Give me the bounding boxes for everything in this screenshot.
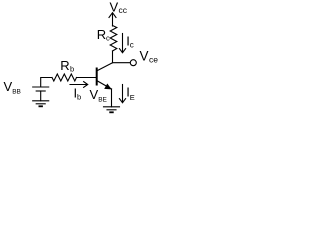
label Vbb [4,79,21,96]
battery VBB top plate [33,86,49,88]
svg-text:ce: ce [149,55,158,65]
svg-text:BB: BB [12,89,21,96]
svg-text:b: b [70,64,74,73]
svg-text:V: V [4,79,13,94]
label Rb [60,58,74,73]
current arrow Ib [70,82,88,88]
node Vce terminal circle [130,60,136,66]
battery VBB bottom plate [36,90,45,92]
svg-text:b: b [77,93,81,102]
label Vbe [90,87,108,104]
current arrow IE [119,85,125,103]
transistor Q1 base bar [96,69,98,85]
label Ib [74,86,82,102]
svg-text:BE: BE [98,97,107,104]
label Vcc [110,0,128,15]
svg-text:E: E [130,93,135,102]
label Vce [140,49,159,65]
svg-text:V: V [110,0,119,15]
svg-text:c: c [130,41,134,50]
wire to Vce terminal [113,62,131,64]
ground battery [33,101,49,107]
node Vcc supply arrow [109,13,116,26]
label Rc [97,27,110,43]
svg-text:R: R [60,58,69,73]
label Ic [126,34,134,50]
resistor RB [52,74,77,81]
svg-text:cc: cc [119,5,128,15]
transistor Q1 emitter lead with arrow [98,81,112,89]
ground emitter [104,107,120,113]
svg-text:R: R [97,27,106,42]
current arrow Ic [119,34,125,53]
label IE [126,85,135,103]
wire battery to ground [40,91,42,101]
wire battery to RB [41,78,52,88]
wire emitter vertical [111,89,113,107]
resistor RC [110,26,117,52]
wire base [77,77,96,79]
svg-text:c: c [106,34,110,43]
wire collector vertical [112,51,114,63]
svg-text:V: V [90,87,99,102]
svg-text:V: V [140,49,149,64]
transistor Q1 collector lead [98,63,113,71]
